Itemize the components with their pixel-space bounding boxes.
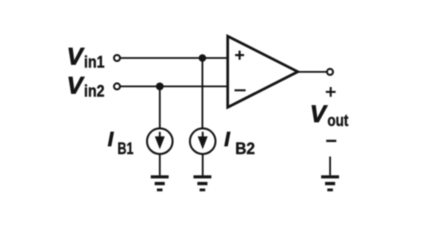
terminal Vin1 [114, 55, 120, 61]
svg-text:V: V [67, 44, 85, 71]
label Vin1 [67, 44, 105, 72]
label minus polarity (Vout) [326, 140, 336, 142]
wire from node A down to IB2 [201, 58, 203, 128]
node A junction dot (Vin1 / IB2) [199, 54, 207, 62]
ground (below IB2) [193, 175, 211, 191]
wire Vin2 horizontal [120, 85, 227, 87]
wire Vout ground stub [329, 157, 331, 176]
label IB2 [224, 129, 255, 158]
op-amp U1 plus input marker [235, 51, 244, 60]
node B junction dot (Vin2 / IB1) [156, 83, 164, 91]
label Vin2 [67, 73, 105, 101]
wire from node B down to IB1 [159, 86, 161, 128]
current source IB1 [147, 128, 173, 154]
svg-text:in2: in2 [84, 83, 105, 101]
svg-text:out: out [327, 112, 348, 130]
svg-text:in1: in1 [84, 54, 105, 72]
wire IB1 to ground [159, 154, 161, 175]
svg-text:V: V [67, 73, 85, 100]
terminal Vout [327, 69, 333, 75]
op-amp U1 minus input marker [235, 89, 246, 91]
label plus polarity (Vout) [326, 87, 336, 97]
svg-text:I: I [224, 129, 230, 151]
label IB1 [108, 129, 134, 158]
svg-text:B2: B2 [235, 139, 255, 158]
label Vout [310, 101, 349, 130]
op-amp U1 triangle [228, 36, 298, 107]
wire IB2 to ground [202, 154, 204, 175]
current source IB2 [190, 128, 216, 154]
svg-text:I: I [108, 129, 114, 151]
terminal Vin2 [114, 83, 120, 89]
wire op-amp output [298, 71, 327, 73]
ground (below IB1) [151, 175, 169, 191]
ground (Vout reference) [321, 175, 339, 191]
wire Vin1 horizontal [120, 57, 227, 59]
svg-text:B1: B1 [118, 139, 134, 158]
svg-text:V: V [310, 101, 328, 128]
